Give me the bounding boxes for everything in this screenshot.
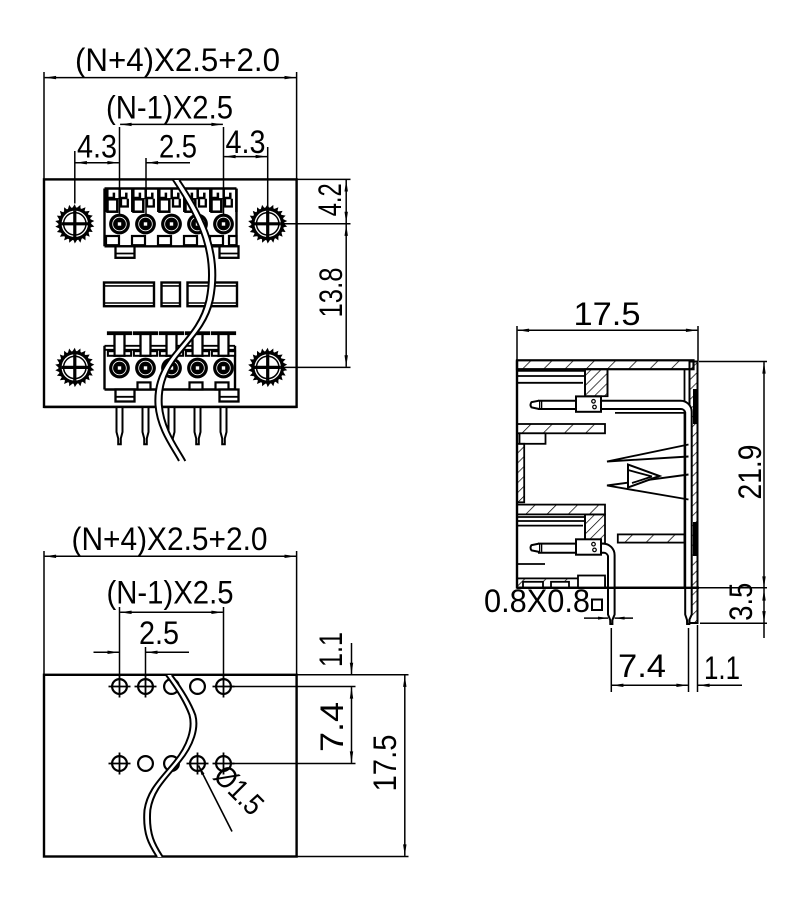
side view dimension 21.9 line <box>699 362 767 588</box>
front view solder pin 1 <box>117 408 123 444</box>
lower row wire-clamp screw contact 4 <box>187 358 208 379</box>
upper block left mounting foot <box>116 246 135 257</box>
lower cavity bottom line <box>517 563 545 565</box>
middle slot rectangle left <box>104 283 154 307</box>
side view dimension 3.5 line <box>700 589 767 639</box>
PCB hole row1 col5 <box>213 676 235 698</box>
dimension 4.3 right line <box>224 147 268 208</box>
lower row wire-clamp screw contact 2 <box>135 358 156 379</box>
lower pin socket barrel <box>576 539 601 554</box>
front view solder pin 4 <box>195 408 201 444</box>
upper terminal block body <box>105 189 237 247</box>
spring contact middle arrowhead <box>628 465 660 488</box>
upper row wire-clamp screw contact 1 <box>109 214 130 235</box>
upper cavity bottom ledge line <box>615 412 685 414</box>
mounting screw top-right M2 <box>248 204 287 243</box>
upper row wire-clamp screw contact 2 <box>135 214 156 235</box>
lower row wire-clamp screw contact 5 <box>213 358 234 379</box>
mounting screw bottom-left M3 <box>55 348 94 387</box>
upper cavity right wall <box>607 369 609 397</box>
mounting screw bottom-right M4 <box>248 348 287 387</box>
svg-text:1.1: 1.1 <box>313 632 349 667</box>
dimension 4.3 left line <box>75 151 119 204</box>
pin width arrows 0.8 <box>584 617 633 620</box>
lower row wire-clamp screw contact 1 <box>109 358 130 379</box>
svg-text:(N-1)X2.5: (N-1)X2.5 <box>107 575 234 611</box>
dimension (N-1)X2.5 line with arrows <box>120 123 224 216</box>
side view bottom edge redraw over pins <box>517 587 699 589</box>
svg-text:0.8X0.8: 0.8X0.8 <box>484 583 590 619</box>
upper plug interface lines <box>517 369 585 395</box>
side view dimension 17.5 line <box>517 326 698 362</box>
flange seal bar upper <box>693 389 698 424</box>
svg-text:2.5: 2.5 <box>139 615 179 651</box>
svg-text:4.2: 4.2 <box>312 183 348 216</box>
lower block left mounting foot <box>116 390 135 402</box>
PCB layout view rectangle <box>44 675 297 857</box>
right flange hatched plate <box>690 362 698 624</box>
dimension 13.8 line <box>282 224 351 367</box>
front view bottom edge redraw over pins <box>44 406 297 408</box>
left wall strip hatched (middle) <box>517 444 524 503</box>
dimension 7.4 line (PCB view) <box>224 687 356 764</box>
upper block bottom notches <box>106 236 237 245</box>
dimension (N+4)X2.5+2.0 line (PCB view) <box>44 551 297 675</box>
svg-text:(N+4)X2.5+2.0: (N+4)X2.5+2.0 <box>75 42 280 78</box>
svg-text:17.5: 17.5 <box>367 735 403 792</box>
lower pole top hatched band <box>517 505 605 515</box>
PCB hole row1 col4 <box>190 679 205 694</box>
svg-text:(N+4)X2.5+2.0: (N+4)X2.5+2.0 <box>72 521 268 557</box>
svg-text:Ø1.5: Ø1.5 <box>207 759 270 822</box>
flange seal bar lower <box>693 522 698 556</box>
svg-text:13.8: 13.8 <box>313 268 349 318</box>
spring contact lower blade <box>607 475 689 500</box>
upper row wire-clamp screw contact 4 <box>187 214 208 235</box>
upper row wire-clamp screw contact 3 <box>161 214 182 235</box>
lower block right mounting foot <box>220 390 239 402</box>
mounting screw top-left M1 <box>55 204 94 243</box>
top hatched wall band <box>517 360 694 369</box>
dimension 2.5 line (front view) <box>146 158 190 216</box>
dimension (N-1)X2.5 line (PCB view) <box>120 607 224 675</box>
PCB hole row2 col1 <box>109 753 131 775</box>
lower contact pin with right-angle bend <box>531 544 615 624</box>
dimension 2.5 line (PCB view) <box>94 647 190 675</box>
side view dimension 7.4 line <box>611 628 688 692</box>
svg-text:7.4: 7.4 <box>618 648 666 684</box>
bottom band notches <box>523 582 543 588</box>
break line wave (PCB view) <box>144 675 196 857</box>
front view solder pin 2 <box>143 408 149 444</box>
PCB hole row1 col1 <box>109 676 131 698</box>
front view solder pin 5 <box>221 408 227 444</box>
break line wave (front view) <box>155 180 215 461</box>
svg-text:7.4: 7.4 <box>314 702 350 752</box>
front view outer body rectangle <box>44 179 297 407</box>
side view housing outline <box>517 360 699 588</box>
upper contact pin with right-angle bend <box>531 401 692 624</box>
lower block bottom notches <box>138 382 229 389</box>
lower plug interface lines <box>517 514 585 540</box>
PCB hole row1 col3 <box>164 679 179 694</box>
svg-text:17.5: 17.5 <box>574 296 641 332</box>
dimension 4.2 line <box>282 179 351 223</box>
lower terminal block body <box>105 346 236 390</box>
front view solder pin 3 <box>169 408 175 444</box>
shelf hatched band above lower cavity <box>618 534 685 542</box>
middle slot rectangle right <box>188 283 238 307</box>
side view housing bottom edge extension line <box>595 587 767 589</box>
upper divider notch box <box>520 433 546 444</box>
dimension 1.1 line (PCB view) <box>350 643 353 674</box>
pin callout square symbol <box>592 600 602 611</box>
svg-text:(N-1)X2.5: (N-1)X2.5 <box>106 90 233 126</box>
PCB hole row2 col3 <box>164 756 179 771</box>
upper block right mounting foot <box>220 246 239 257</box>
PCB hole row2 col4 <box>187 753 209 775</box>
upper row wire-clamp screw contact 5 <box>213 214 234 235</box>
svg-text:1.1: 1.1 <box>704 650 740 686</box>
PCB hole row1 col2 <box>135 676 157 698</box>
spring contact upper blade <box>607 445 689 462</box>
svg-text:4.3: 4.3 <box>77 129 117 165</box>
hole diameter leader line Ø1.5 <box>199 766 233 832</box>
upper inner wall hatched block <box>585 369 608 396</box>
PCB hole row2 col5 <box>213 753 235 775</box>
cavity right wall <box>684 369 686 588</box>
lower block I-beam castellation tabs <box>107 331 236 356</box>
lower inner wall hatched block <box>585 514 605 543</box>
upper divider hatched band <box>517 424 605 433</box>
upper pin socket barrel <box>576 396 601 411</box>
dimension 17.5 line (PCB view) <box>297 675 409 857</box>
bottom hatched band <box>517 578 605 587</box>
dimension (N+4)X2.5+2.0 line with arrows <box>44 72 297 179</box>
svg-text:2.5: 2.5 <box>159 129 197 165</box>
svg-text:4.3: 4.3 <box>226 124 266 160</box>
upper block castellation pattern <box>106 189 236 212</box>
svg-text:21.9: 21.9 <box>732 445 768 500</box>
middle slot rectangle center <box>162 283 181 307</box>
side view dimension 1.1 line <box>698 625 743 692</box>
lower row wire-clamp screw contact 3 <box>161 358 182 379</box>
PCB hole row2 col2 <box>138 756 153 771</box>
